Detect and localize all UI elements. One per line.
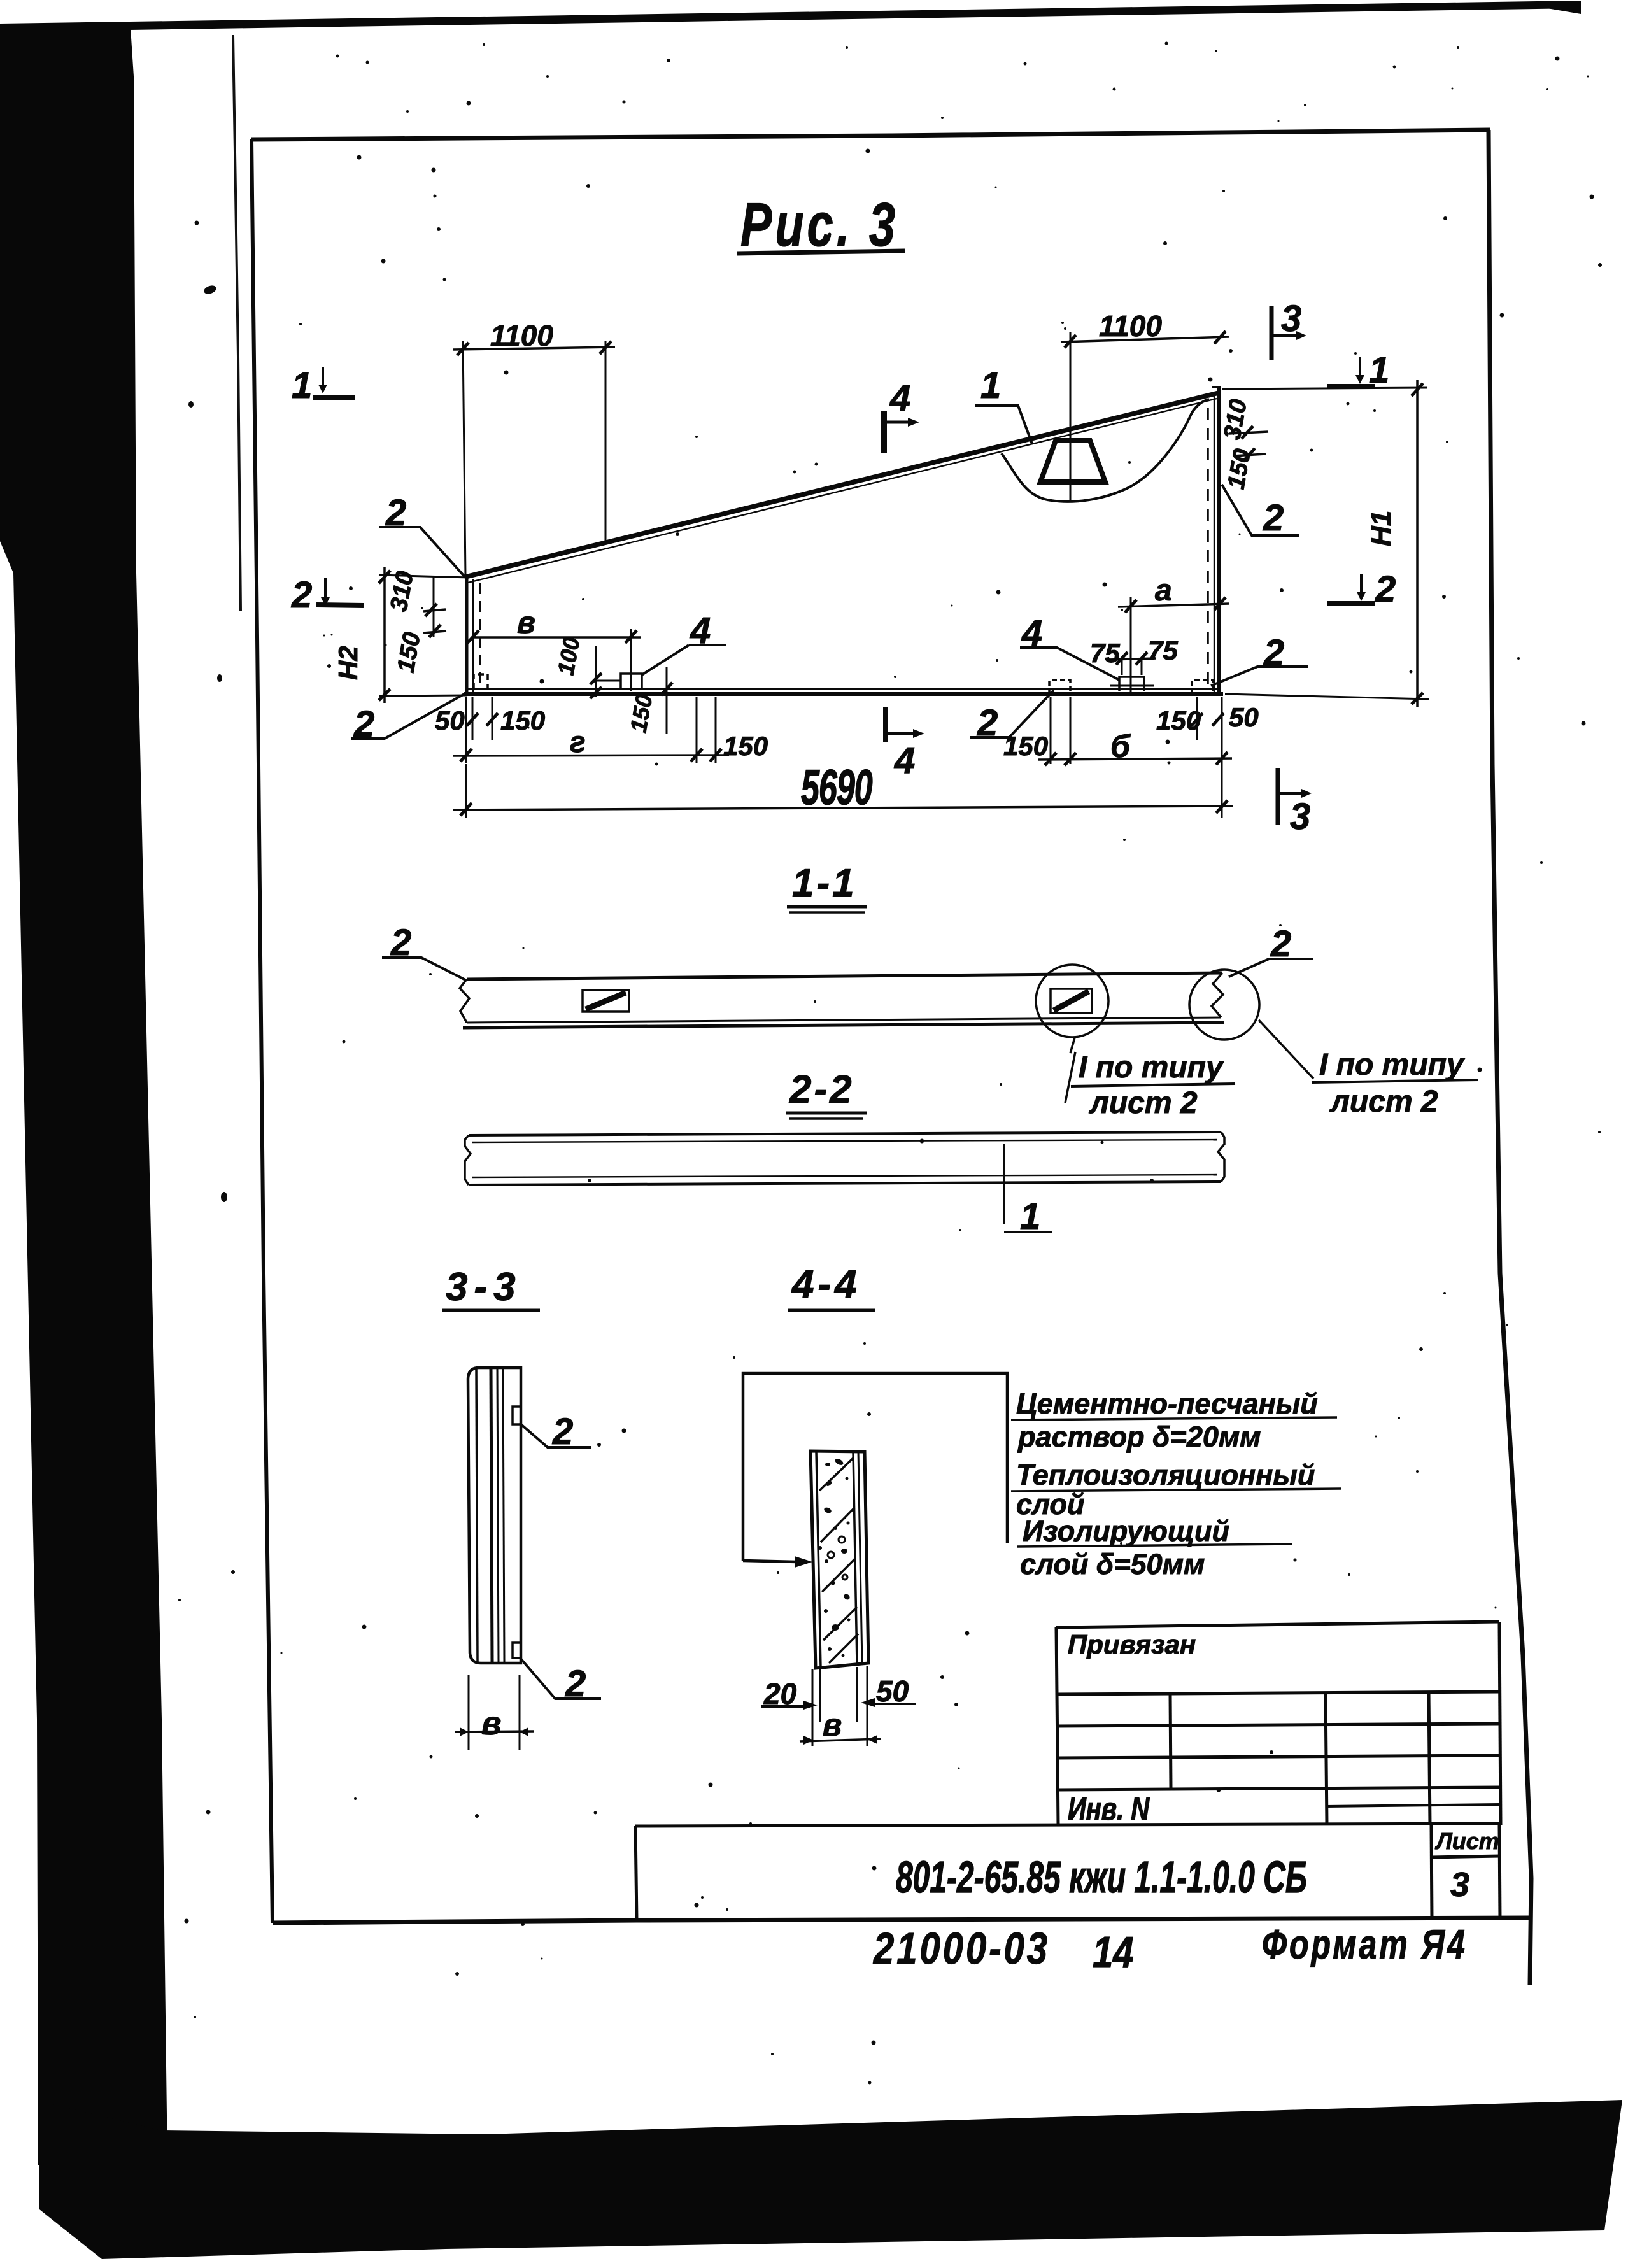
drawing frame: right border bbox=[1489, 130, 1531, 1985]
bottom dims row1 left: 50 / 150 extension lines bbox=[472, 697, 474, 740]
svg-text:1: 1 bbox=[980, 365, 1001, 406]
scan artifact: page fold line top-left bbox=[233, 35, 241, 611]
panel bottom edge (double line) bbox=[467, 688, 1219, 690]
drawing frame: bottom border bbox=[273, 1918, 1531, 1923]
dim в (below 3-3) bbox=[468, 1675, 470, 1750]
svg-text:4-4: 4-4 bbox=[791, 1263, 861, 1307]
svg-text:150: 150 bbox=[723, 731, 768, 761]
section 2-2 bar: outer outline bbox=[469, 1132, 1221, 1135]
svg-text:14: 14 bbox=[1093, 1927, 1134, 1977]
svg-text:раствор δ=20мм: раствор δ=20мм bbox=[1017, 1421, 1261, 1453]
svg-text:Привязан: Привязан bbox=[1068, 1629, 1196, 1659]
svg-text:Н1: Н1 bbox=[1366, 511, 1397, 546]
dim H2: dimension line bbox=[383, 567, 386, 703]
title block: upper table outline bbox=[1056, 1622, 1499, 1627]
svg-text:2: 2 bbox=[565, 1663, 586, 1705]
callout 2 (top clip) bbox=[520, 1423, 591, 1447]
section mark 4 (bottom) bbox=[883, 707, 888, 742]
embedded plate (bottom-left corner, dashed) bbox=[474, 674, 488, 689]
svg-text:2: 2 bbox=[291, 574, 312, 616]
dim в: right extension line down to plate bbox=[630, 629, 632, 691]
wall section: concrete speckles bbox=[823, 1457, 851, 1657]
svg-text:3-3: 3-3 bbox=[446, 1265, 522, 1309]
svg-text:в: в bbox=[481, 1705, 501, 1742]
section 1-1 bar: left jagged end bbox=[460, 979, 469, 1023]
svg-text:лист 2: лист 2 bbox=[1329, 1085, 1438, 1119]
dim в (left, horizontal) bbox=[473, 636, 641, 639]
wall section: hollow speckles bbox=[839, 1536, 845, 1543]
title block: Лист cell bbox=[1431, 1825, 1432, 1919]
title block: row lines bbox=[1057, 1692, 1500, 1694]
dim 310 (left): tick line and text bbox=[423, 609, 446, 611]
svg-text:2: 2 bbox=[1375, 569, 1396, 610]
note: I по типу лист 2 (right) bbox=[1259, 1020, 1313, 1079]
svg-text:2: 2 bbox=[552, 1411, 573, 1452]
svg-text:Лист: Лист bbox=[1434, 1828, 1499, 1854]
section 1-1 bar: top line bbox=[467, 973, 1222, 979]
dim 50 (below wall) bbox=[856, 1667, 858, 1722]
svg-text:в: в bbox=[823, 1707, 842, 1743]
svg-text:слой δ=50мм: слой δ=50мм bbox=[1020, 1548, 1205, 1580]
dim a (right, above bottom): extension+dimension lines bbox=[1130, 597, 1132, 694]
svg-text:а: а bbox=[1155, 574, 1172, 607]
svg-text:801-2-65.85 кжи 1.1-1.0.0 СБ: 801-2-65.85 кжи 1.1-1.0.0 СБ bbox=[896, 1852, 1307, 1902]
wall section: right layer lines bbox=[853, 1452, 857, 1665]
section mark 3 (bottom) bbox=[1276, 768, 1280, 825]
title block: lower box bbox=[635, 1824, 1499, 1826]
svg-text:21000-03: 21000-03 bbox=[873, 1924, 1050, 1973]
section 2-2 bar: inner lines bbox=[472, 1140, 1217, 1142]
note: I по типу лист 2 (middle) bbox=[1070, 1038, 1075, 1053]
title underline bbox=[737, 251, 905, 253]
dim H2 (left height): extension lines bbox=[379, 575, 469, 578]
wall section: left mortar layer lines bbox=[816, 1452, 821, 1668]
svg-text:2-2: 2-2 bbox=[789, 1068, 854, 1112]
svg-text:1100: 1100 bbox=[490, 319, 553, 352]
svg-text:150: 150 bbox=[1003, 731, 1048, 761]
embedded plate 4b (x≈1778, solid) bbox=[1119, 677, 1144, 691]
wall section: concrete hatching bbox=[819, 1458, 853, 1491]
dim 150 (vertical at plate 4) bbox=[666, 667, 668, 734]
panel right edge (double line with top tab) bbox=[1217, 386, 1221, 695]
clip (top right of 3-3) bbox=[513, 1407, 521, 1424]
callout 1 (section 2-2) bbox=[1003, 1144, 1005, 1224]
dim 1100 (right): extension line left bbox=[1070, 332, 1072, 347]
svg-text:Формат Я4: Формат Я4 bbox=[1262, 1922, 1468, 1968]
dim в (below wall) bbox=[800, 1739, 881, 1741]
section 1-1 bar: right jagged end bbox=[1212, 973, 1223, 1017]
svg-text:75: 75 bbox=[1148, 635, 1178, 665]
scan artifact: bottom black band bbox=[39, 2100, 1622, 2259]
section 3-3 bar: inner lines bbox=[491, 1369, 492, 1662]
panel top sloped edge (double line) bbox=[465, 393, 1219, 577]
dim б (bottom row2 right): extension+dimension lines bbox=[1050, 697, 1052, 764]
svg-text:Инв. N: Инв. N bbox=[1068, 1791, 1150, 1827]
svg-text:4: 4 bbox=[894, 740, 915, 781]
embedded plate symbol (left, hatched) bbox=[583, 990, 629, 1012]
svg-text:150: 150 bbox=[1156, 705, 1201, 735]
embedded plate 2 (x≈1665, dashed) bbox=[1049, 680, 1070, 694]
svg-text:1-1: 1-1 bbox=[792, 861, 857, 905]
dim 150 (right edge): ticks and rotated text bbox=[1233, 454, 1266, 456]
dim 1100 (left): dimension line bbox=[453, 347, 615, 350]
svg-text:г: г bbox=[570, 725, 586, 758]
svg-text:5690: 5690 bbox=[801, 760, 873, 816]
section mark 2 (right, down arrow) bbox=[1327, 601, 1375, 606]
svg-text:Цементно-песчаный: Цементно-песчаный bbox=[1016, 1387, 1318, 1420]
svg-text:в: в bbox=[517, 606, 535, 640]
svg-text:1: 1 bbox=[292, 365, 312, 406]
scan artifact: left black bar bbox=[0, 27, 167, 2165]
embedded plate symbol (middle, hatched) bbox=[1051, 989, 1092, 1013]
title block: column lines bbox=[1170, 1693, 1171, 1789]
callout 2 (bottom clip) bbox=[520, 1658, 601, 1699]
panel left edge dashed line bbox=[479, 583, 481, 690]
section 2-2 bar: left end with notch bbox=[465, 1135, 471, 1185]
dim 1100 (right): dimension line bbox=[1061, 337, 1229, 342]
section 4-4 leader arrow into wall bbox=[743, 1561, 797, 1562]
scan artifact: page top edge line bbox=[0, 1, 1579, 32]
drawing frame: top border bbox=[251, 130, 1490, 139]
clip (bottom right of 3-3) bbox=[513, 1643, 521, 1658]
dim 150 (left): tick line and text bbox=[423, 631, 446, 633]
dim chain line at left edge (310/150) bbox=[433, 576, 435, 637]
svg-text:I по типу: I по типу bbox=[1079, 1051, 1224, 1084]
svg-text:2: 2 bbox=[1263, 497, 1284, 539]
section mark 1 (top right, down arrow) bbox=[1327, 384, 1375, 389]
panel right edge dashed line bbox=[1207, 408, 1209, 691]
svg-text:50: 50 bbox=[435, 705, 465, 735]
scan artifact: top-right corner wedge bbox=[1533, 1, 1581, 14]
panel left edge (double line) bbox=[465, 576, 469, 695]
loop centre line / extension of right 1100 dim bbox=[1070, 332, 1072, 500]
scan noise speckles bbox=[178, 42, 1602, 2085]
lifting loop (trapezoid) bbox=[1040, 441, 1105, 482]
svg-text:50: 50 bbox=[1229, 702, 1259, 732]
section 3-3 bar: outer outline (rounded left corners) bbox=[468, 1368, 521, 1663]
svg-text:I по типу: I по типу bbox=[1319, 1048, 1465, 1082]
dims 75 75 (at plate 4b) bbox=[1108, 658, 1156, 660]
drawing frame: left border bbox=[251, 139, 273, 1923]
svg-text:4: 4 bbox=[889, 378, 910, 419]
svg-text:лист 2: лист 2 bbox=[1089, 1086, 1198, 1120]
dim 20 (below wall) bbox=[812, 1669, 814, 1746]
section 2-2 bar: right end with notch bbox=[1218, 1132, 1224, 1182]
dim 310 (right edge): ticks and rotated text bbox=[1229, 432, 1268, 434]
svg-text:Изолирующий: Изолирующий bbox=[1023, 1515, 1229, 1547]
loop pocket recess curve bbox=[1002, 399, 1209, 502]
svg-text:Н2: Н2 bbox=[333, 646, 363, 680]
svg-text:1: 1 bbox=[1369, 350, 1389, 391]
svg-text:150: 150 bbox=[500, 705, 545, 735]
svg-text:1100: 1100 bbox=[1099, 309, 1162, 343]
section 4-4 callout outline box bbox=[743, 1373, 1007, 1561]
bottom dims row1 right: 150 / 50 extension lines bbox=[1196, 697, 1198, 740]
embedded plate (bottom-right corner, dashed) bbox=[1192, 680, 1213, 694]
embedded plate 4 (x≈990, solid) bbox=[621, 674, 642, 690]
dim H1 (right height): extension lines bbox=[1222, 388, 1427, 389]
svg-text:3: 3 bbox=[1450, 1866, 1469, 1904]
svg-text:3: 3 bbox=[1290, 796, 1310, 837]
wall section: outer boundary bbox=[810, 1451, 868, 1668]
section 3-3 bar: left inner line bbox=[476, 1369, 478, 1662]
svg-text:75: 75 bbox=[1090, 638, 1120, 668]
dim 5690 (total): extension+dimension lines bbox=[465, 764, 467, 818]
detail circle (right end) bbox=[1189, 970, 1259, 1040]
svg-text:Теплоизоляционный: Теплоизоляционный bbox=[1016, 1459, 1315, 1491]
svg-text:б: б bbox=[1110, 728, 1131, 764]
svg-text:Рис. 3: Рис. 3 bbox=[740, 191, 898, 260]
section 1-1 bar: bottom double line bbox=[467, 1017, 1221, 1023]
dim 100 (vertical small) bbox=[595, 646, 597, 697]
dim 1100 (left): extension lines bbox=[463, 341, 465, 576]
detail circle (middle plate) bbox=[1036, 965, 1108, 1037]
dim H1: dimension line bbox=[1416, 380, 1419, 707]
dim г (bottom row2): extension+dimension lines bbox=[465, 697, 467, 763]
